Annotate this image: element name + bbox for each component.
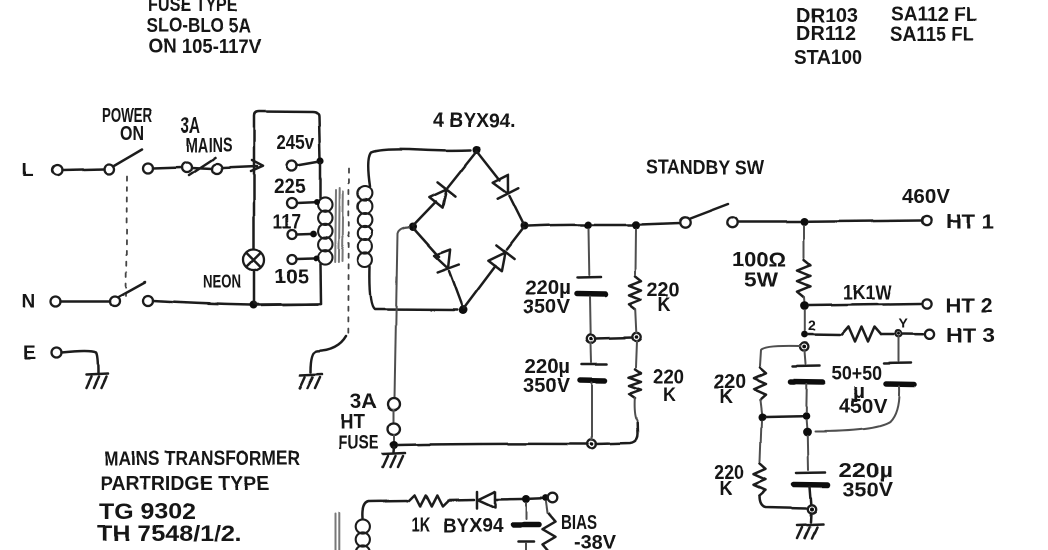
svg-text:SLO-BLO 5A: SLO-BLO 5A [147,15,251,37]
svg-text:350V: 350V [523,375,571,397]
svg-text:HT 1: HT 1 [946,211,994,233]
svg-text:FUSE: FUSE [338,432,379,454]
svg-text:L: L [22,160,34,181]
svg-text:105: 105 [274,266,309,288]
svg-text:MAINS: MAINS [186,135,232,157]
svg-text:2: 2 [808,317,816,333]
svg-text:350V: 350V [523,296,571,318]
svg-text:K: K [719,478,732,500]
svg-text:PARTRIDGE TYPE: PARTRIDGE TYPE [100,473,269,495]
svg-text:FUSE TYPE: FUSE TYPE [148,0,238,16]
svg-text:BIAS: BIAS [561,512,597,534]
svg-text:350V: 350V [843,479,894,501]
svg-text:-38V: -38V [574,532,617,550]
svg-text:HT 2: HT 2 [946,295,992,317]
svg-text:4 BYX94.: 4 BYX94. [433,110,516,132]
svg-text:100Ω: 100Ω [732,249,786,271]
svg-text:E: E [23,343,36,364]
svg-text:245v: 245v [277,132,315,154]
svg-text:HT: HT [340,411,365,433]
svg-text:SA112 FL: SA112 FL [891,4,977,26]
svg-text:HT 3: HT 3 [946,325,995,347]
svg-text:N: N [22,291,36,312]
svg-text:BYX94: BYX94 [443,515,504,537]
svg-text:225: 225 [274,176,306,198]
svg-text:117: 117 [273,211,301,233]
svg-text:STANDBY SW: STANDBY SW [646,157,764,179]
svg-text:MAINS TRANSFORMER: MAINS TRANSFORMER [104,448,300,470]
svg-text:5W: 5W [744,269,778,291]
svg-text:Y: Y [899,315,909,331]
svg-text:K: K [658,294,671,316]
svg-text:ON 105-117V: ON 105-117V [149,36,262,58]
svg-text:TH 7548/1/2.: TH 7548/1/2. [97,521,242,546]
svg-text:1K1W: 1K1W [843,282,892,304]
svg-text:3A: 3A [350,391,377,413]
svg-text:DR112: DR112 [796,23,856,45]
svg-text:450V: 450V [839,396,888,418]
svg-text:SA115 FL: SA115 FL [890,24,974,46]
svg-text:460V: 460V [902,186,951,208]
svg-text:1K: 1K [411,514,430,536]
svg-text:K: K [720,386,733,408]
svg-text:ON: ON [120,123,144,145]
svg-text:K: K [663,384,676,406]
svg-text:NEON: NEON [203,272,241,292]
svg-text:STA100: STA100 [794,47,862,69]
